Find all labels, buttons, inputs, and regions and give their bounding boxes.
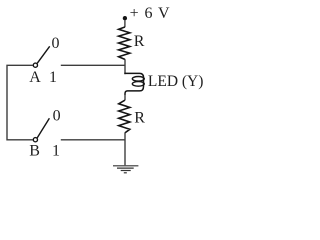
svg-text:LED (Y): LED (Y) (148, 73, 204, 90)
wire resistor R lower to ground (124, 133, 126, 166)
svg-text:0: 0 (53, 107, 61, 124)
resistor R (lower) (119, 100, 130, 133)
svg-text:1: 1 (52, 142, 60, 159)
svg-text:R: R (134, 110, 145, 127)
svg-text:A: A (29, 69, 41, 86)
svg-text:R: R (134, 33, 145, 50)
wire node: resistor R bottom to LED top (124, 59, 126, 74)
svg-text:+ 6 V: + 6 V (130, 5, 170, 22)
switch A blade (37, 46, 50, 63)
wire switch A contact 1 to node (61, 64, 125, 66)
power supply dot (123, 16, 127, 20)
wire switch B contact 1 to node (61, 139, 125, 141)
ground (113, 166, 138, 173)
wire supply dot to resistor R top (124, 20, 126, 27)
svg-text:1: 1 (49, 69, 57, 86)
LED (Y) coil symbol (124, 73, 143, 95)
switch B blade (37, 118, 49, 138)
switch B pivot (33, 138, 37, 142)
switch A pivot (33, 63, 37, 67)
svg-text:B: B (29, 142, 40, 159)
resistor R (upper) (119, 27, 130, 59)
wire left rail connecting switch commons (7, 65, 33, 140)
svg-text:0: 0 (52, 35, 60, 52)
wire LED bottom to resistor R lower (124, 95, 126, 101)
